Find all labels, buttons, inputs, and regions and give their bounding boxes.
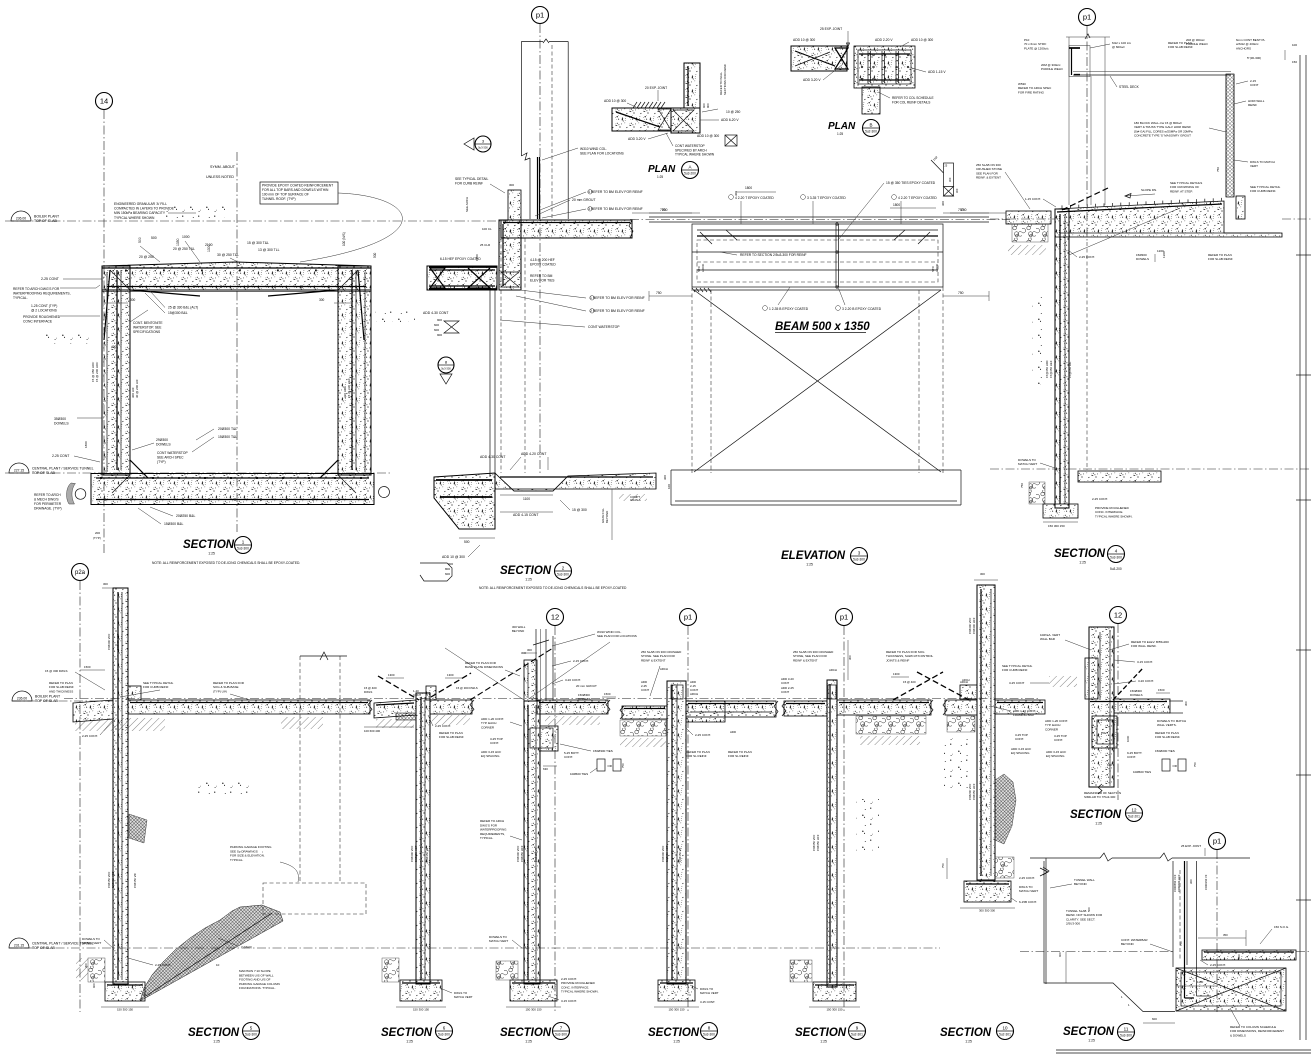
svg-text:12: 12 — [1114, 611, 1122, 620]
beam mid stirrup — [835, 224, 837, 287]
grid bubble 12 — [547, 609, 564, 626]
svg-text:BEYOND: BEYOND — [1121, 942, 1135, 946]
grid bubble p1 — [836, 609, 853, 626]
svg-text:REINF & EXTENT: REINF & EXTENT — [641, 658, 666, 662]
svg-text:AND THICKNESS: AND THICKNESS — [49, 689, 73, 693]
svg-text:TYPICAL.: TYPICAL. — [480, 836, 494, 840]
svg-text:OR: OR — [1173, 764, 1177, 768]
svg-text:1 REFER TO BM ELEV FOR REINF: 1 REFER TO BM ELEV FOR REINF — [590, 296, 645, 300]
svg-text:600: 600 — [1058, 952, 1062, 957]
main sloped slab — [1055, 201, 1282, 237]
svg-text:VERT: VERT — [1250, 164, 1258, 168]
svg-text:TYPICAL WHERE SHOWN.: TYPICAL WHERE SHOWN. — [561, 990, 599, 994]
svg-text:15 @ 330 HEF: 15 @ 330 HEF — [347, 378, 351, 398]
svg-text:DOWELS: DOWELS — [578, 697, 591, 701]
svg-text:227.15: 227.15 — [14, 469, 24, 473]
beam outline — [692, 224, 943, 287]
svg-text:CONT: CONT — [781, 690, 789, 694]
svg-text:CONT WATERSTOP: CONT WATERSTOP — [588, 325, 620, 329]
svg-text:SYMM. ABOUT: SYMM. ABOUT — [210, 165, 236, 169]
svg-text:4-15 @ 200 HEF: 4-15 @ 200 HEF — [530, 258, 555, 262]
slab right of wall 8 — [686, 701, 776, 717]
svg-text:300: 300 — [130, 298, 136, 302]
svg-text:FOUNDATIONS. TYPICAL.: FOUNDATIONS. TYPICAL. — [239, 986, 276, 990]
slab right of wall section5 — [128, 700, 370, 714]
svg-text:EQ SPACING: EQ SPACING — [481, 754, 500, 758]
svg-text:15Ø150 VF: 15Ø150 VF — [425, 847, 429, 862]
svg-text:150 300 150: 150 300 150 — [1048, 524, 1065, 528]
svg-text:REINF & EXTENT: REINF & EXTENT — [793, 658, 818, 662]
svg-text:2-25 CONT.: 2-25 CONT. — [435, 724, 451, 728]
slab right of wall 9 — [837, 700, 931, 715]
svg-text:NOTE: ALL REINFORCEMENT EXPOSE: NOTE: ALL REINFORCEMENT EXPOSED TO DE-IC… — [479, 586, 627, 590]
svg-text:6-15B CONT.: 6-15B CONT. — [1019, 900, 1037, 904]
svg-text:TOP OF SLAB: TOP OF SLAB — [34, 219, 57, 223]
svg-text:1500/550 VCF: 1500/550 VCF — [1173, 874, 1177, 892]
svg-text:900: 900 — [437, 318, 442, 322]
footing 8 — [658, 980, 695, 1001]
svg-text:100 (N/S): 100 (N/S) — [342, 232, 346, 246]
svg-text:20 mm GROUT: 20 mm GROUT — [576, 684, 597, 688]
svg-text:ADD 3-20 V: ADD 3-20 V — [628, 137, 646, 141]
svg-text:150 300 150: 150 300 150 — [525, 1008, 541, 1012]
section marker 8 down arrow — [438, 357, 454, 373]
tie symbols 12 — [1162, 759, 1170, 771]
svg-text:5u2-301: 5u2-301 — [999, 1033, 1011, 1037]
svg-text:CONT.: CONT. — [490, 741, 499, 745]
svg-text:p1: p1 — [840, 613, 848, 622]
svg-text:500: 500 — [138, 237, 142, 243]
svg-text:TYPICAL WHERE SHOWN: TYPICAL WHERE SHOWN — [675, 153, 715, 157]
curb plan mini detail — [944, 163, 954, 196]
svg-text:300: 300 — [319, 298, 325, 302]
svg-text:CONC INTERFACE: CONC INTERFACE — [23, 319, 53, 323]
column step break — [521, 153, 530, 160]
svg-text:600: 600 — [434, 328, 439, 332]
pilaster widening — [540, 726, 558, 751]
svg-text:150: 150 — [1101, 731, 1106, 735]
svg-text:15 @ 400: 15 @ 400 — [903, 680, 916, 684]
epoxy note box — [260, 182, 338, 204]
svg-text:ELEV FOR TIES: ELEV FOR TIES — [530, 278, 555, 282]
top labels epoxy coated bars — [729, 195, 734, 200]
svg-text:630: 630 — [1107, 763, 1112, 767]
svg-text:MATCH VERT: MATCH VERT — [454, 995, 473, 999]
svg-text:MATCH VERT: MATCH VERT — [700, 991, 719, 995]
svg-text:15@300 B&L: 15@300 B&L — [168, 311, 188, 315]
svg-text:750: 750 — [662, 208, 668, 212]
sheet bottom edge right — [1056, 1049, 1311, 1051]
svg-text:3-15 CONT.: 3-15 CONT. — [1137, 660, 1153, 664]
wall bottom break 12 — [1098, 784, 1102, 794]
svg-text:5u3-300: 5u3-300 — [703, 1033, 715, 1037]
wall below corner — [499, 220, 521, 290]
svg-text:15Ø350 HCF: 15Ø350 HCF — [414, 845, 418, 862]
svg-text:MATCH VERT: MATCH VERT — [1019, 889, 1038, 893]
svg-text:600: 600 — [434, 323, 439, 327]
slab left of wall 6 — [374, 700, 416, 718]
steel column W310 wide box — [520, 42, 522, 157]
svg-text:300: 300 — [84, 963, 88, 968]
svg-text:1500: 1500 — [604, 692, 611, 696]
column X below beam — [694, 289, 941, 291]
svg-text:1500: 1500 — [1158, 688, 1165, 692]
legend polygon bottom left — [420, 563, 452, 581]
svg-text:300: 300 — [734, 191, 738, 196]
svg-text:NOTE: ALL REINFORCEMENT EXPOSE: NOTE: ALL REINFORCEMENT EXPOSED TO DE-IC… — [152, 561, 300, 565]
svg-text:1500: 1500 — [84, 665, 91, 669]
svg-text:35Ø300: 35Ø300 — [54, 417, 66, 421]
svg-text:CONCRETE TYPE 'S' MASONRY GROU: CONCRETE TYPE 'S' MASONRY GROUT — [1134, 134, 1191, 138]
svg-text:SLOPE DN.: SLOPE DN. — [1141, 188, 1157, 192]
svg-text:1:25: 1:25 — [213, 1040, 220, 1044]
svg-text:150Ø300 TIES: 150Ø300 TIES — [593, 749, 613, 753]
svg-text:2-25 CONT.: 2-25 CONT. — [82, 734, 98, 738]
750 dim left — [950, 212, 1006, 214]
svg-text:A: A — [688, 164, 691, 169]
svg-text:5u3-300: 5u3-300 — [237, 547, 249, 551]
svg-text:SEE TYPICAL DETAIL: SEE TYPICAL DETAIL — [455, 177, 488, 181]
hatch ticks under slab left of beam — [692, 288, 695, 292]
beam end diagonal hooks — [700, 232, 712, 244]
svg-text:150 300 150: 150 300 150 — [826, 1008, 842, 1012]
svg-text:ELEVATION: ELEVATION — [781, 550, 846, 562]
svg-text:SECTION: SECTION — [1063, 1026, 1115, 1038]
slab right of wall 12 — [1114, 699, 1170, 713]
svg-text:PLAN: PLAN — [648, 164, 676, 175]
slab piece before section 10 — [945, 700, 977, 715]
svg-text:ADD 4-15 CONT: ADD 4-15 CONT — [513, 513, 538, 517]
stipple streaks 9 — [856, 799, 879, 851]
svg-text:5u2-201: 5u2-201 — [1128, 815, 1140, 819]
svg-text:15 @ 300: 15 @ 300 — [572, 508, 587, 512]
svg-text:6-15 HEF EPOXY COATED: 6-15 HEF EPOXY COATED — [440, 257, 481, 261]
slab right of wall 10 — [995, 700, 1045, 714]
svg-text:15Ø150 VF: 15Ø150 VF — [678, 847, 682, 862]
svg-text:3-15 CONT.: 3-15 CONT. — [561, 999, 577, 1003]
svg-text:MATCH VERT: MATCH VERT — [82, 941, 101, 945]
footing 6 — [400, 980, 442, 1001]
svg-text:CONT WATERSTOP: CONT WATERSTOP — [157, 451, 188, 455]
svg-text:SECTION: SECTION — [381, 1027, 433, 1039]
bottom slab right part with key notch — [495, 473, 656, 491]
svg-text:SECTION: SECTION — [500, 1027, 552, 1039]
svg-text:750: 750 — [941, 863, 945, 868]
svg-text:BEYOND: BEYOND — [1074, 882, 1088, 886]
svg-text:750: 750 — [621, 763, 625, 768]
svg-text:10: 10 — [216, 963, 220, 967]
svg-text:FOR FIRE RATING: FOR FIRE RATING — [1018, 90, 1045, 94]
plan B column leg below — [862, 87, 880, 114]
svg-text:236.00: 236.00 — [16, 217, 26, 221]
grid bubble p1 — [1079, 9, 1096, 26]
svg-text:300: 300 — [663, 475, 667, 480]
lower half slab level dashdot line — [64, 698, 1040, 700]
section 1 left wall concrete — [102, 266, 130, 475]
svg-text:SECTION: SECTION — [795, 1027, 847, 1039]
svg-text:SECTION: SECTION — [500, 565, 552, 577]
svg-text:TUNNEL ROOF. (TYP): TUNNEL ROOF. (TYP) — [262, 197, 296, 201]
svg-text:TOP OF SLAB: TOP OF SLAB — [35, 699, 58, 703]
footing 9 — [813, 982, 856, 1001]
svg-text:15Ø400 HCF: 15Ø400 HCF — [972, 617, 976, 634]
plan A vertical wall strip — [684, 63, 700, 108]
svg-text:150Ø200 TIES: 150Ø200 TIES — [1155, 749, 1175, 753]
svg-text:WALL BAR: WALL BAR — [1040, 637, 1056, 641]
svg-text:SECTION: SECTION — [1054, 548, 1106, 560]
svg-text:600: 600 — [1152, 1017, 1157, 1021]
svg-text:ADD: ADD — [730, 730, 736, 734]
wall top dim 300 — [102, 587, 113, 589]
svg-text:5u3-300: 5u3-300 — [555, 1033, 567, 1037]
svg-text:FOR ALL TOP BARS AND DOWELS WI: FOR ALL TOP BARS AND DOWELS WITHIN — [262, 188, 329, 192]
plan B horizontal wall strip — [791, 46, 847, 71]
footing 10 higher — [964, 881, 1011, 902]
svg-text:5u3-300: 5u3-300 — [1120, 1034, 1132, 1038]
bottom slab of section 2 — [434, 473, 495, 529]
svg-text:750: 750 — [1216, 167, 1220, 172]
svg-text:2 REFER TO BM ELEV FOR REINF: 2 REFER TO BM ELEV FOR REINF — [590, 309, 645, 313]
svg-text:500: 500 — [373, 252, 377, 258]
svg-text:FOR WALL REINF.: FOR WALL REINF. — [1131, 644, 1157, 648]
curb at wall top — [508, 190, 521, 220]
svg-text:WATERPROOFING REQUIREMENTS,: WATERPROOFING REQUIREMENTS, — [13, 291, 71, 295]
svg-text:ADD 10 @ 300: ADD 10 @ 300 — [911, 38, 933, 42]
slab right of corner — [501, 220, 632, 238]
svg-text:750: 750 — [961, 208, 967, 212]
svg-text:ADD 10 @ 300: ADD 10 @ 300 — [442, 555, 465, 559]
svg-text:5"(30-300): 5"(30-300) — [1247, 56, 1261, 60]
svg-text:15 @ 300 DWLS: 15 @ 300 DWLS — [456, 686, 478, 690]
svg-text:ARCH: ARCH — [829, 668, 837, 672]
dim lines 750 bottom — [649, 295, 692, 297]
level marker 236.00 lower — [12, 700, 113, 702]
svg-text:500: 500 — [151, 236, 157, 240]
section 1 top slab concrete — [102, 262, 371, 290]
750 dim right — [632, 212, 700, 214]
earth stipple patch left of wall 10 — [944, 738, 968, 788]
diagonal leader at wall top — [1062, 188, 1108, 210]
svg-text:CONT.: CONT. — [1015, 737, 1024, 741]
plan A waterstop X right end — [658, 109, 671, 130]
svg-text:OR: OR — [608, 764, 612, 768]
svg-text:SPECIFICATIONS: SPECIFICATIONS — [133, 330, 161, 334]
svg-text:1000: 1000 — [1126, 735, 1130, 742]
svg-text:1:25: 1:25 — [673, 1040, 680, 1044]
svg-text:12: 12 — [1131, 807, 1137, 812]
svg-text:150 S.O.G.: 150 S.O.G. — [1274, 925, 1289, 929]
svg-text:ARCH: ARCH — [690, 692, 698, 696]
slab left of wall 8 — [622, 706, 667, 719]
svg-text:FOR SLAB REINF: FOR SLAB REINF — [1208, 257, 1233, 261]
svg-text:ADD 1-15 V: ADD 1-15 V — [928, 70, 946, 74]
slab left of wall 9 — [784, 701, 827, 716]
svg-text:5u3-300: 5u3-300 — [1110, 556, 1122, 560]
svg-text:@ 2 LOCATIONS: @ 2 LOCATIONS — [31, 308, 58, 312]
svg-text:30 @ 250 T&L: 30 @ 250 T&L — [217, 253, 239, 257]
svg-text:15Ø300 VCF: 15Ø300 VCF — [107, 633, 111, 650]
svg-text:300: 300 — [1237, 954, 1241, 959]
svg-text:SECTION: SECTION — [648, 1027, 700, 1039]
svg-text:10Ø600 TIES: 10Ø600 TIES — [570, 772, 588, 776]
svg-text:5u3-300: 5u3-300 — [557, 573, 569, 577]
svg-text:300: 300 — [955, 188, 959, 193]
dashed X above wall 6 — [378, 676, 419, 700]
svg-text:150: 150 — [1292, 60, 1297, 64]
svg-text:p1: p1 — [1213, 837, 1221, 846]
gridline continuation dashed — [1086, 242, 1088, 470]
wind column above — [535, 629, 537, 701]
svg-text:PROVIDE ROUGHENED: PROVIDE ROUGHENED — [23, 315, 61, 319]
level marker 231.15 — [9, 938, 29, 948]
slope dn arrow — [1125, 194, 1155, 196]
dashed X right of wall 9 — [893, 672, 943, 700]
svg-text:20 mm GROUT: 20 mm GROUT — [572, 198, 596, 202]
svg-text:1:25: 1:25 — [806, 563, 813, 567]
svg-text:25 EXP. JOINT: 25 EXP. JOINT — [820, 27, 842, 31]
wall beyond lines going down — [489, 290, 491, 477]
svg-text:JOINTS & REINF: JOINTS & REINF — [886, 658, 910, 662]
plan A exp joint hatch ticks — [633, 102, 637, 108]
svg-text:1300: 1300 — [207, 244, 211, 252]
svg-text:300: 300 — [1189, 879, 1193, 884]
svg-text:900: 900 — [706, 103, 710, 108]
svg-text:1:25: 1:25 — [965, 1040, 972, 1044]
svg-text:15Ø150 VIF: 15Ø150 VIF — [133, 873, 137, 888]
svg-text:STEEL DECK: STEEL DECK — [1119, 85, 1140, 89]
svg-text:7 (MAX): 7 (MAX) — [241, 945, 252, 949]
svg-text:30 @ 200 HIF: 30 @ 200 HIF — [135, 379, 139, 398]
wall top dim 9 — [847, 640, 849, 680]
plan A horizontal wall strip — [612, 108, 671, 131]
svg-text:236.00: 236.00 — [17, 697, 27, 701]
svg-text:10 @ 250: 10 @ 250 — [726, 110, 741, 114]
level marker 236.00 — [11, 211, 31, 221]
svg-text:PLATE @ 1200o/c: PLATE @ 1200o/c — [1024, 46, 1049, 50]
svg-text:REFER TO SECTION 2/5u3-300 FOR: REFER TO SECTION 2/5u3-300 FOR REINF — [740, 253, 807, 257]
svg-text:29Ø300: 29Ø300 — [156, 438, 168, 442]
svg-text:2-25 CONT.: 2-25 CONT. — [155, 963, 171, 967]
svg-text:UNLESS NOTED: UNLESS NOTED — [206, 175, 234, 179]
svg-text:CONT.: CONT. — [564, 755, 573, 759]
svg-text:SEE ARCH SPEC: SEE ARCH SPEC — [157, 455, 184, 459]
slope midline — [146, 913, 272, 996]
svg-text:15 @ 350 TIES EPOXY COATED: 15 @ 350 TIES EPOXY COATED — [886, 181, 936, 185]
svg-text:COMPACTED IN LAYERS TO PROVIDE: COMPACTED IN LAYERS TO PROVIDE — [114, 207, 175, 211]
curb around column — [524, 660, 537, 701]
svg-text:BOILER PLANT: BOILER PLANT — [34, 215, 60, 219]
footing block 11 — [1176, 968, 1286, 1011]
svg-text:ADD 2-20 V: ADD 2-20 V — [875, 38, 893, 42]
level line 236.00 top — [5, 220, 456, 222]
svg-text:15Ø300 HCF: 15Ø300 HCF — [111, 871, 115, 888]
svg-text:4 2-20 T EPOXY COATED: 4 2-20 T EPOXY COATED — [898, 196, 937, 200]
svg-text:TYPICAL.: TYPICAL. — [13, 296, 28, 300]
dark compacted fill band under left slab 6 — [396, 713, 416, 720]
svg-text:600: 600 — [445, 572, 450, 576]
beam internal reinforcement lines — [697, 229, 938, 231]
svg-text:REFER TO ARCH DWG'S FOR: REFER TO ARCH DWG'S FOR — [13, 287, 60, 291]
svg-text:CORNER: CORNER — [1045, 727, 1059, 731]
level line 227.15 — [5, 472, 390, 474]
svg-text:500: 500 — [1087, 907, 1091, 912]
plan B column block in plan — [854, 46, 915, 88]
svg-text:1:25: 1:25 — [1079, 561, 1086, 565]
svg-text:TOP OF SLAB: TOP OF SLAB — [32, 471, 55, 475]
svg-text:5u3-300: 5u3-300 — [245, 1033, 257, 1037]
svg-text:15 @ 300 T&L: 15 @ 300 T&L — [247, 241, 269, 245]
slab lines above beam — [649, 216, 989, 218]
svg-text:1300: 1300 — [893, 672, 900, 676]
svg-text:(TYP) U/N: (TYP) U/N — [213, 689, 227, 693]
svg-text:100: 100 — [1292, 43, 1297, 47]
svg-text:REFER TO BM: REFER TO BM — [530, 274, 553, 278]
steel column detail top — [1066, 36, 1110, 38]
svg-text:3-20 CONT.: 3-20 CONT. — [565, 678, 581, 682]
svg-text:20Ø300 T&L: 20Ø300 T&L — [218, 427, 237, 431]
earth stipple blobs 5 — [197, 778, 249, 794]
svg-text:SEE PLAN FOR LOCATIONS: SEE PLAN FOR LOCATIONS — [597, 634, 637, 638]
svg-text:DOWELS: DOWELS — [1130, 693, 1143, 697]
curb at wall 5 top — [128, 686, 141, 700]
svg-text:FOR SL REINF: FOR SL REINF — [686, 754, 707, 758]
svg-text:MATCH VERT: MATCH VERT — [1018, 462, 1037, 466]
hatch left of wall 12 — [1049, 676, 1077, 687]
key notch outline — [498, 476, 568, 491]
svg-text:& DOWELS: & DOWELS — [1230, 1033, 1246, 1037]
footing strip below — [671, 469, 961, 471]
svg-text:300: 300 — [948, 177, 952, 182]
grid bubble p1 — [1209, 833, 1226, 850]
svg-text:FOR CURB REINF: FOR CURB REINF — [455, 181, 483, 185]
hatch under slabs 6 — [376, 719, 414, 728]
svg-text:1:25: 1:25 — [406, 1040, 413, 1044]
earth stipple patches around box — [45, 330, 93, 344]
svg-text:DOWELS: DOWELS — [156, 442, 171, 446]
svg-text:15Ø350 HCF: 15Ø350 HCF — [972, 783, 976, 800]
svg-text:1300: 1300 — [1162, 251, 1166, 258]
steel deck line — [1073, 71, 1231, 73]
svg-text:ADD 6-20 V: ADD 6-20 V — [721, 118, 739, 122]
svg-text:B: B — [869, 122, 872, 127]
block wall right — [1226, 74, 1234, 197]
svg-text:300: 300 — [848, 655, 852, 660]
svg-text:TOP OF SLAB: TOP OF SLAB — [32, 946, 55, 950]
hatch under slab 5 — [75, 718, 165, 731]
svg-text:1:25: 1:25 — [657, 175, 663, 179]
svg-text:SECTIONS FOR REINF: SECTIONS FOR REINF — [723, 64, 727, 95]
svg-text:DRAINAGE. (TYP): DRAINAGE. (TYP) — [34, 507, 62, 511]
slab right of col 7 — [537, 700, 608, 714]
tie symbols 7 — [597, 759, 605, 771]
heavy dashed corner bar 12 — [1113, 668, 1143, 700]
svg-text:400: 400 — [111, 345, 117, 349]
svg-text:CENTRAL PLANT / SERVICE TUNNEL: CENTRAL PLANT / SERVICE TUNNEL — [32, 467, 94, 471]
svg-text:FOR CURB REINF: FOR CURB REINF — [143, 685, 169, 689]
svg-text:750: 750 — [958, 291, 964, 295]
svg-text:1:25: 1:25 — [525, 578, 532, 582]
section 6 wall — [416, 693, 430, 984]
sheet right edge lines — [1299, 55, 1301, 1040]
svg-text:ADD 3-20 V: ADD 3-20 V — [803, 78, 821, 82]
svg-text:3-25 CONT: 3-25 CONT — [1009, 681, 1025, 685]
svg-text:CONT.: CONT. — [1054, 738, 1063, 742]
svg-text:4 2-20 T EPOXY COATED: 4 2-20 T EPOXY COATED — [735, 196, 774, 200]
svg-text:750: 750 — [1179, 941, 1183, 946]
svg-text:ADD 4-30 CONT: ADD 4-30 CONT — [423, 311, 448, 315]
svg-text:ADD 4-20 CONT: ADD 4-20 CONT — [521, 452, 546, 456]
svg-text:PROVIDE EPOXY COATED REINFORCE: PROVIDE EPOXY COATED REINFORCEMENT — [262, 184, 333, 188]
